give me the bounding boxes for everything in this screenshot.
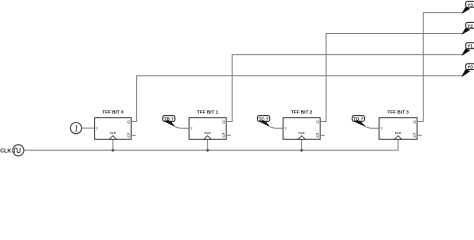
flip-flop U4 TFF BIT 3 [379,109,417,139]
tag Y1 [461,43,474,56]
svg-text:Q: Q [127,119,130,124]
svg-text:TFF BIT 1: TFF BIT 1 [197,109,219,114]
wire: CLK tap to U1 [112,139,114,150]
svg-text:TFF BIT 3: TFF BIT 3 [387,109,409,114]
svg-text:CLK: CLK [204,131,211,135]
wire: U3 Q to Y2 line [320,34,462,122]
wire: U4 Q to Y3 line [417,13,462,122]
wire: U2 Qbar stub [226,134,231,136]
wire: constant 1 to U1 T input [81,127,94,129]
tag Y2 [461,22,474,34]
svg-text:Q: Q [222,119,225,124]
flip-flop U1 TFF BIT 0 [95,109,132,139]
wire: U4 Qbar stub [417,134,422,136]
wire: U1 Qbar stub [131,134,136,136]
svg-text:Q: Q [413,119,416,124]
tag TD [352,116,366,128]
clock source CLK [0,145,24,156]
svg-text:TFF BIT 2: TFF BIT 2 [291,109,313,114]
flip-flop U3 TFF BIT 2 [283,109,320,139]
wire: CLK bus horizontal [24,139,398,150]
svg-text:Y0: Y0 [467,65,473,70]
svg-text:CLK: CLK [298,131,305,135]
wire: CLK tap to U3 [301,139,303,150]
node: CLK junction at U3 [300,149,303,152]
svg-text:CLK: CLK [395,131,402,135]
svg-text:Y2: Y2 [467,23,473,28]
wire: CLK tap to U2 [207,139,209,150]
tag TB [163,116,176,128]
flip-flop U2 TFF BIT 1 [189,109,226,139]
wire: TB tag to U2 T input [175,127,189,128]
svg-text:Y3: Y3 [467,2,473,7]
tag TC [258,116,271,128]
wire: TD tag to U4 T input [366,127,379,128]
node: CLK junction at U2 [206,149,209,152]
wire: U2 Q to Y1 line [226,55,462,122]
constant 1 source [70,123,81,134]
tag Y3 [461,1,474,13]
svg-text:CLK: CLK [110,131,117,135]
tag Y0 [461,64,474,77]
node: CLK junction at U1 [112,149,115,152]
svg-text:TFF BIT 0: TFF BIT 0 [102,109,124,114]
svg-text:1: 1 [74,123,79,133]
svg-text:CLK: CLK [0,148,11,154]
wire: TC tag to U3 T input [270,127,283,128]
svg-text:Y1: Y1 [467,44,473,49]
svg-text:Q: Q [316,119,319,124]
wire: U3 Qbar stub [320,134,325,136]
wire: U1 Q to Y0 line [131,76,462,122]
